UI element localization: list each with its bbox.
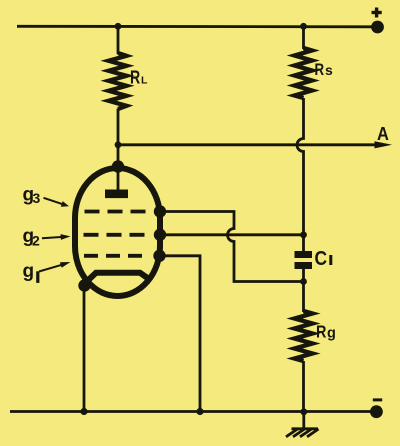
tube envelope U1 — [75, 168, 160, 296]
node dot tube top — [112, 160, 124, 172]
grid g3 dashed electrode — [85, 210, 149, 214]
wire A output line — [118, 143, 376, 146]
node dot Rg/ground rail — [300, 408, 307, 415]
svg-text:A: A — [377, 123, 389, 144]
resistor Rg — [295, 311, 313, 361]
svg-text:2: 2 — [32, 232, 40, 248]
node dot Rs top junction — [300, 23, 307, 30]
svg-text:C: C — [315, 248, 328, 270]
terminal - — [370, 405, 383, 418]
wire RL top lead — [117, 26, 120, 54]
resistor Rs — [295, 48, 313, 98]
svg-text:R: R — [316, 322, 327, 342]
node dot g3 at envelope — [154, 205, 166, 217]
plus sign — [372, 11, 382, 14]
arrow g3 — [44, 198, 64, 205]
wire grid g3 lead with hop over g2 wire — [160, 212, 304, 282]
minus sign — [373, 398, 382, 401]
svg-text:3: 3 — [33, 190, 41, 206]
arrowhead A output — [375, 141, 393, 148]
grid g2 dashed electrode — [84, 233, 149, 237]
svg-text:g: g — [327, 326, 336, 342]
wire top supply rail — [17, 25, 374, 28]
svg-text:R: R — [315, 60, 325, 79]
wire Rs top lead — [302, 26, 305, 49]
node dot RL top junction — [115, 23, 122, 30]
svg-text:L: L — [141, 74, 148, 86]
wire cathode to ground rail — [83, 288, 86, 412]
capacitor C1 top plate — [295, 251, 313, 258]
wire grid g1 lead — [160, 256, 201, 412]
node dot cathode junction — [78, 279, 90, 291]
resistor RL — [109, 53, 127, 109]
cathode electrode — [84, 273, 148, 285]
wire Rg bottom lead — [302, 361, 305, 412]
svg-text:g: g — [23, 261, 35, 282]
wire Rs bottom with hop over A line — [297, 98, 303, 252]
svg-text:s: s — [325, 62, 333, 78]
node dot g1/ground rail — [196, 408, 203, 415]
arrow g1 — [39, 264, 64, 271]
svg-text:R: R — [130, 66, 140, 87]
node dot g1 at envelope — [153, 250, 165, 262]
wire C1 bottom to Rg — [302, 269, 305, 313]
ground symbol — [286, 412, 319, 437]
anode plate — [105, 190, 128, 199]
node dot cathode/ground rail — [80, 408, 87, 415]
arrow g2 — [42, 237, 63, 238]
node dot anode/A junction — [115, 141, 122, 148]
anode lead inside tube — [117, 167, 120, 191]
wire grid g2 lead — [160, 233, 304, 236]
wire RL bottom to anode — [117, 109, 120, 168]
node dot g2/rail junction — [300, 231, 307, 238]
grid g1 dashed electrode — [84, 254, 146, 258]
terminal + — [371, 21, 384, 34]
node dot g3/rail junction — [300, 278, 307, 285]
capacitor C1 bottom plate — [295, 262, 313, 269]
node dot g2 at envelope — [154, 229, 166, 241]
wire bottom ground rail — [10, 410, 374, 413]
